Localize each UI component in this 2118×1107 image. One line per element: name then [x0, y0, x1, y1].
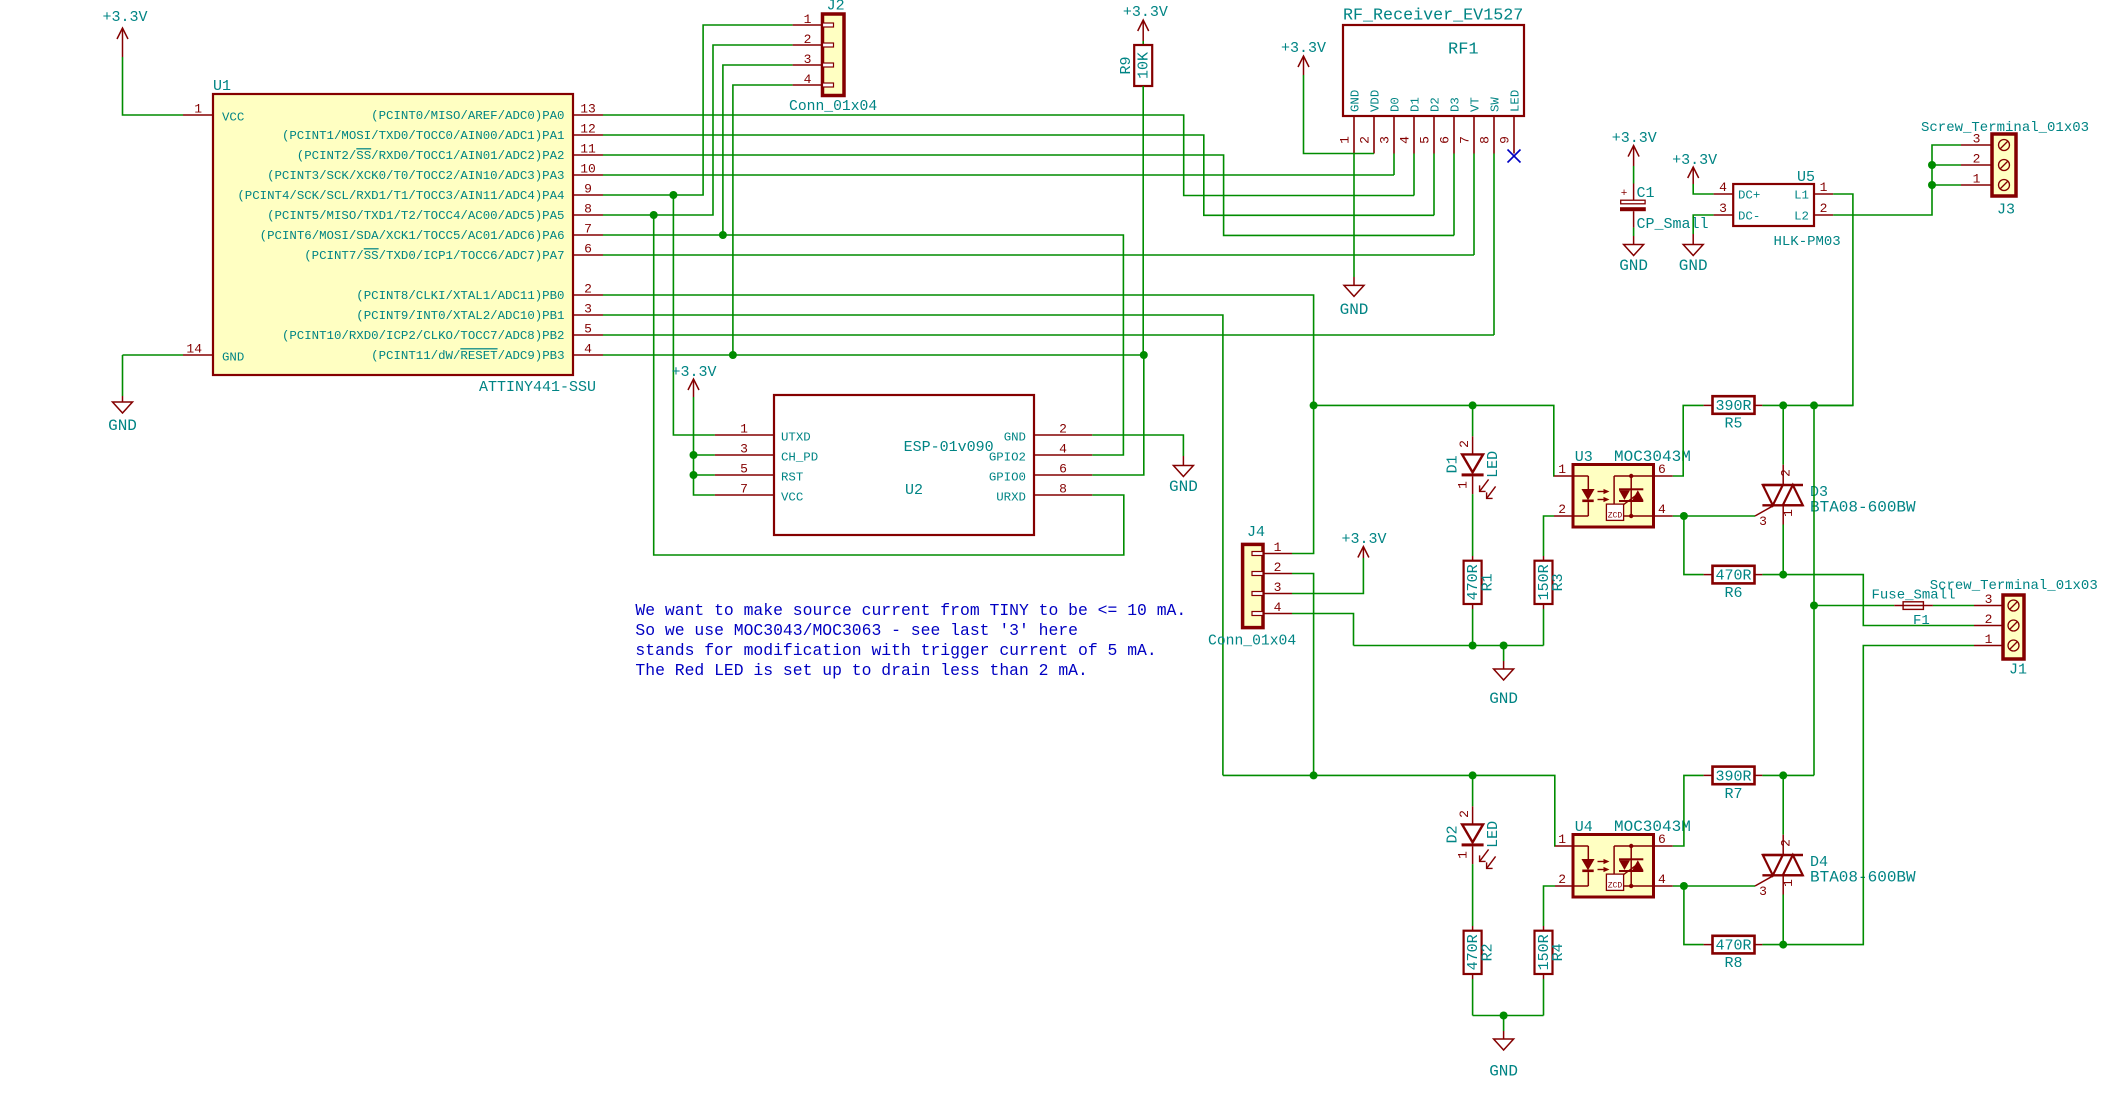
wire +3.3V to U2 VCC	[694, 397, 715, 495]
svg-text:ESP-01v090: ESP-01v090	[904, 439, 994, 456]
svg-text:+3.3V: +3.3V	[1612, 130, 1657, 147]
svg-text:14: 14	[186, 342, 202, 357]
connector J4 Conn_01x04	[1208, 524, 1296, 650]
svg-text:2: 2	[1985, 612, 1993, 627]
wire U2 RST spur	[694, 474, 715, 476]
svg-text:R5: R5	[1724, 416, 1742, 433]
svg-text:1: 1	[1985, 632, 1993, 647]
svg-text:J4: J4	[1247, 524, 1265, 541]
junction R7 / D4 anode	[1779, 771, 1787, 779]
svg-text:CP_Small: CP_Small	[1637, 216, 1709, 233]
svg-text:GPIO0: GPIO0	[989, 470, 1026, 484]
svg-text:L2: L2	[1794, 209, 1809, 223]
svg-text:4: 4	[1274, 600, 1282, 615]
junction L1 / fuse row	[1810, 602, 1818, 610]
no-connect RF1 LED	[1508, 150, 1521, 163]
wire R5 to L1 rail	[1762, 404, 1853, 406]
svg-text:ATTINY441-SSU: ATTINY441-SSU	[479, 379, 596, 396]
svg-text:1: 1	[1781, 509, 1796, 517]
svg-text:2: 2	[1358, 136, 1373, 144]
svg-text:13: 13	[580, 102, 596, 117]
power +3.3V R9	[1123, 4, 1168, 41]
junction PB3 / R9 / GPIO0	[1140, 351, 1148, 359]
svg-text:470R: 470R	[1715, 938, 1751, 955]
svg-text:7: 7	[1458, 136, 1473, 144]
svg-text:6: 6	[1658, 832, 1666, 847]
wire +3.3V to RF1 VDD	[1304, 75, 1375, 154]
svg-text:1: 1	[1338, 136, 1353, 144]
svg-text:(PCINT6/MOSI/SDA/XCK1/TOCC5/AC: (PCINT6/MOSI/SDA/XCK1/TOCC5/AC01/ADC6)PA…	[260, 229, 565, 243]
power +3.3V U2	[671, 364, 716, 397]
ground GND channel2	[1489, 1016, 1518, 1081]
ground GND channel1	[1489, 646, 1518, 709]
svg-text:1: 1	[1558, 832, 1566, 847]
svg-text:10K: 10K	[1136, 52, 1153, 79]
svg-text:VCC: VCC	[222, 111, 244, 125]
svg-text:1: 1	[1973, 172, 1981, 187]
wire channel1 GND rail	[1354, 645, 1544, 647]
svg-text:1: 1	[1456, 481, 1471, 489]
svg-text:2: 2	[1779, 839, 1794, 847]
wire U4 pin4 to R8	[1684, 886, 1704, 945]
svg-text:11: 11	[580, 142, 596, 157]
svg-text:D1: D1	[1445, 455, 1462, 473]
svg-text:D2: D2	[1428, 97, 1442, 112]
svg-text:VDD: VDD	[1368, 90, 1382, 112]
resistor R9 10K	[1118, 41, 1153, 355]
resistor R7 390R	[1704, 767, 1763, 803]
svg-text:5: 5	[740, 462, 748, 477]
wire RF1 SW drop	[1493, 154, 1495, 336]
svg-text:MOC3043M: MOC3043M	[1614, 818, 1691, 836]
junction J3 pin2	[1928, 161, 1936, 169]
junction GND rail / R1	[1469, 642, 1477, 650]
svg-text:4: 4	[1719, 180, 1727, 195]
svg-text:ZCD: ZCD	[1608, 882, 1623, 891]
svg-text:C1: C1	[1637, 185, 1655, 202]
power +3.3V J4	[1341, 531, 1386, 558]
svg-text:1: 1	[1558, 462, 1566, 477]
svg-text:2: 2	[1457, 810, 1472, 818]
svg-text:+3.3V: +3.3V	[1341, 531, 1386, 548]
svg-text:GND: GND	[1004, 430, 1026, 444]
svg-text:GPIO2: GPIO2	[989, 450, 1026, 464]
wire U2-side pin2 of U3 to R3	[1544, 516, 1555, 556]
svg-text:GND: GND	[1340, 301, 1369, 319]
svg-text:4: 4	[1059, 442, 1067, 457]
junction channel1 rail / D1	[1469, 401, 1477, 409]
svg-text:3: 3	[1378, 136, 1393, 144]
svg-text:9: 9	[1498, 136, 1513, 144]
power +3.3V RF1	[1281, 40, 1326, 75]
connector J2 Conn_01x04	[789, 0, 877, 115]
junction U4 pin4 node	[1680, 882, 1688, 890]
rf module RF1 RF_Receiver_EV1527	[1338, 7, 1525, 154]
svg-text:2: 2	[584, 282, 592, 297]
wire U5 L2 to J3	[1833, 145, 1961, 215]
svg-text:12: 12	[580, 122, 596, 137]
svg-text:GND: GND	[1679, 257, 1708, 275]
resistor R6 470R	[1704, 566, 1763, 602]
junction RST	[690, 471, 698, 479]
wire J3 pin2 spur	[1932, 164, 1961, 166]
svg-text:10: 10	[580, 162, 596, 177]
svg-text:3: 3	[1719, 201, 1727, 216]
svg-text:GND: GND	[1489, 690, 1518, 708]
wire PA3 to RF1 D0	[603, 174, 1394, 176]
svg-text:2: 2	[1558, 872, 1566, 887]
svg-text:2: 2	[1274, 560, 1282, 575]
svg-text:(PCINT7/SS/TXD0/ICP1/TOCC6/ADC: (PCINT7/SS/TXD0/ICP1/TOCC6/ADC7)PA7	[304, 249, 564, 263]
svg-text:9: 9	[584, 182, 592, 197]
svg-text:1: 1	[740, 422, 748, 437]
svg-text:2: 2	[1558, 502, 1566, 517]
svg-text:2: 2	[1779, 469, 1794, 477]
wire PA6 to J2 pin3	[723, 65, 793, 235]
svg-text:4: 4	[584, 342, 592, 357]
wire U2 CH_PD spur	[694, 454, 715, 456]
wire RF1 D0 drop	[1393, 154, 1395, 176]
svg-text:390R: 390R	[1715, 398, 1751, 415]
svg-text:R7: R7	[1724, 786, 1742, 803]
wire J4 pin3 to +3.3V	[1292, 558, 1363, 594]
svg-text:1: 1	[1820, 180, 1828, 195]
svg-text:(PCINT8/CLKI/XTAL1/ADC11)PB0: (PCINT8/CLKI/XTAL1/ADC11)PB0	[356, 289, 564, 303]
svg-text:RF_Receiver_EV1527: RF_Receiver_EV1527	[1343, 7, 1523, 26]
svg-text:+3.3V: +3.3V	[671, 364, 716, 381]
wire D2 to R2	[1472, 864, 1474, 926]
wire PA1 to RF1 D2	[603, 135, 1434, 215]
svg-text:+3.3V: +3.3V	[1672, 152, 1717, 169]
wire channel1 rail	[1314, 405, 1554, 476]
svg-text:(PCINT10/RXD0/ICP2/CLKO/TOCC7/: (PCINT10/RXD0/ICP2/CLKO/TOCC7/ADC8)PB2	[282, 329, 565, 343]
svg-text:DC+: DC+	[1738, 188, 1760, 202]
resistor R8 470R	[1704, 936, 1763, 972]
svg-text:RF1: RF1	[1448, 41, 1479, 60]
junction PA5 / URXD	[650, 211, 658, 219]
resistor R1 470R	[1464, 556, 1497, 646]
junction CH_PD	[690, 451, 698, 459]
note text block	[635, 601, 1186, 680]
svg-text:(PCINT1/MOSI/TXD0/TOCC0/AIN00/: (PCINT1/MOSI/TXD0/TOCC0/AIN00/ADC1)PA1	[282, 129, 565, 143]
svg-text:Conn_01x04: Conn_01x04	[789, 99, 877, 115]
wire RF1 D1 drop	[1413, 154, 1415, 196]
svg-text:UTXD: UTXD	[781, 430, 811, 444]
power +3.3V C1	[1612, 130, 1657, 166]
connector J3 Screw_Terminal_01x03	[1921, 120, 2089, 219]
led D2	[1445, 775, 1503, 868]
junction PA6 / J2 pin3	[719, 231, 727, 239]
junction PA4 / UTXD	[669, 191, 677, 199]
svg-text:L1: L1	[1794, 188, 1809, 202]
svg-text:RST: RST	[781, 470, 803, 484]
ground GND U1	[108, 355, 137, 435]
svg-text:+3.3V: +3.3V	[1281, 40, 1326, 57]
wire J4 pin4 to GND rail	[1292, 614, 1354, 646]
junction GND rail ch2	[1500, 1012, 1508, 1020]
svg-text:GND: GND	[1169, 478, 1198, 496]
svg-text:4: 4	[1658, 872, 1666, 887]
triac D3 BTA08-600BW	[1759, 405, 1916, 574]
wire +3.3V to U5 DC+	[1693, 184, 1713, 194]
svg-text:BTA08-600BW: BTA08-600BW	[1810, 499, 1916, 517]
svg-text:CH_PD: CH_PD	[781, 450, 818, 464]
svg-text:3: 3	[804, 52, 812, 67]
svg-text:(PCINT4/SCK/SCL/RXD1/T1/TOCC3/: (PCINT4/SCK/SCL/RXD1/T1/TOCC3/AIN11/ADC4…	[237, 189, 564, 203]
ground GND C1	[1619, 245, 1648, 276]
svg-text:1: 1	[1781, 879, 1796, 887]
ic U1 ATTINY441-SSU	[183, 78, 603, 396]
ground GND U2	[1169, 466, 1198, 497]
junction U3 pin4 node	[1680, 512, 1688, 520]
wire PB3 to R9 junction	[603, 354, 1144, 356]
wire PA2 to RF1 D3	[603, 155, 1454, 235]
wire U3 pin4 to gate D3	[1673, 505, 1774, 516]
svg-text:5: 5	[584, 322, 592, 337]
svg-text:+3.3V: +3.3V	[1123, 4, 1168, 21]
svg-text:(PCINT5/MISO/TXD1/T2/TOCC4/AC0: (PCINT5/MISO/TXD1/T2/TOCC4/AC00/ADC5)PA5	[267, 209, 564, 223]
svg-text:Conn_01x04: Conn_01x04	[1208, 634, 1296, 650]
junction R6 / D3 cathode	[1779, 571, 1787, 579]
svg-text:4: 4	[1398, 136, 1413, 144]
wire U5 L1 to triac rail	[1814, 194, 1853, 405]
svg-text:(PCINT9/INT0/XTAL2/ADC10)PB1: (PCINT9/INT0/XTAL2/ADC10)PB1	[356, 309, 564, 323]
ground GND RF1	[1340, 154, 1369, 320]
svg-text:GND: GND	[222, 351, 244, 365]
svg-text:J3: J3	[1997, 202, 2015, 219]
wire U1 GND pin	[123, 354, 184, 356]
svg-text:3: 3	[1759, 514, 1767, 529]
svg-text:6: 6	[584, 242, 592, 257]
wire RF1 D3 drop	[1453, 154, 1455, 236]
svg-text:J2: J2	[827, 0, 845, 15]
svg-text:6: 6	[1059, 462, 1067, 477]
svg-text:3: 3	[740, 442, 748, 457]
svg-text:R8: R8	[1724, 955, 1742, 972]
wire J2 pin4 drop	[733, 85, 793, 355]
resistor R3 150R	[1535, 556, 1568, 646]
wire R7 to L1 riser	[1762, 774, 1814, 776]
wire L1 riser	[1813, 405, 1815, 775]
svg-text:J1: J1	[2009, 662, 2027, 679]
resistor R4 150R	[1535, 926, 1568, 1016]
fuse F1 Fuse_Small	[1814, 588, 1974, 630]
svg-text:+3.3V: +3.3V	[102, 9, 147, 26]
svg-text:U3: U3	[1575, 449, 1593, 466]
power module U5 HLK-PM03	[1714, 169, 1841, 250]
svg-text:VCC: VCC	[781, 490, 803, 504]
svg-text:(PCINT2/SS/RXD0/TOCC1/AIN01/AD: (PCINT2/SS/RXD0/TOCC1/AIN01/ADC2)PA2	[297, 149, 565, 163]
svg-text:GND: GND	[108, 417, 137, 435]
svg-text:R2: R2	[1480, 943, 1497, 961]
optocoupler U4 MOC3043M	[1555, 818, 1691, 897]
svg-text:3: 3	[1759, 884, 1767, 899]
wire +3.3V to U1 VCC	[123, 57, 184, 115]
svg-text:URXD: URXD	[996, 490, 1026, 504]
svg-text:5: 5	[1418, 136, 1433, 144]
svg-text:2: 2	[1820, 201, 1828, 216]
wire D1 to R1	[1472, 494, 1474, 556]
svg-text:HLK-PM03: HLK-PM03	[1774, 234, 1841, 250]
svg-text:8: 8	[584, 202, 592, 217]
wire channel2 GND rail	[1473, 1015, 1544, 1017]
junction channel2 rail / D2	[1469, 771, 1477, 779]
power +3.3V U1	[102, 9, 147, 57]
svg-text:D0: D0	[1388, 97, 1402, 112]
capacitor C1 CP_Small	[1620, 166, 1709, 245]
svg-text:7: 7	[740, 482, 748, 497]
wire PA4 to U2 UTXD	[673, 195, 715, 435]
svg-text:1: 1	[194, 102, 202, 117]
svg-text:MOC3043M: MOC3043M	[1614, 448, 1691, 466]
junction J3 pin1	[1928, 181, 1936, 189]
svg-text:8: 8	[1059, 482, 1067, 497]
triac D4 BTA08-600BW	[1759, 775, 1916, 944]
resistor R2 470R	[1464, 926, 1497, 1016]
wire J3 pin1 spur	[1932, 184, 1961, 186]
wire PA5 to U2 URXD	[654, 215, 1124, 555]
svg-text:4: 4	[804, 72, 812, 87]
svg-text:Screw_Terminal_01x03: Screw_Terminal_01x03	[1930, 578, 2098, 594]
wire PA7 to RF1 VT	[603, 254, 1474, 256]
wire PA4 to J2 pin1	[603, 25, 793, 195]
svg-text:6: 6	[1438, 136, 1453, 144]
junction PB3 / J2 pin4	[729, 351, 737, 359]
junction R8 / D4 cathode	[1779, 941, 1787, 949]
wire U3 pin4 to R6	[1684, 516, 1704, 575]
wire PB0 to channel1 rail / J4 pin1	[603, 295, 1314, 554]
svg-text:U2: U2	[905, 482, 923, 499]
connector J1 Screw_Terminal_01x03	[1930, 578, 2098, 679]
junction channel2 rail / J4 pin2	[1310, 771, 1318, 779]
wire R8 to J1 pin1	[1762, 646, 1974, 945]
wire PA5 to J2 pin2	[603, 45, 793, 215]
svg-text:LED: LED	[1485, 821, 1502, 848]
svg-text:D1: D1	[1408, 97, 1422, 112]
svg-text:2: 2	[804, 32, 812, 47]
svg-text:D3: D3	[1448, 97, 1462, 112]
svg-text:U4: U4	[1575, 819, 1593, 836]
module U2 ESP-01v090	[715, 395, 1092, 535]
junction GND rail / GND tap	[1500, 642, 1508, 650]
svg-text:(PCINT11/dW/RESET/ADC9)PB3: (PCINT11/dW/RESET/ADC9)PB3	[371, 349, 564, 363]
svg-text:LED: LED	[1508, 90, 1522, 112]
svg-text:2: 2	[1059, 422, 1067, 437]
wire R9 to U2 GPIO0	[1092, 355, 1144, 475]
svg-text:4: 4	[1658, 502, 1666, 517]
wire U2 GND	[1092, 435, 1183, 466]
svg-text:DC-: DC-	[1738, 209, 1760, 223]
optocoupler U3 MOC3043M	[1554, 448, 1691, 527]
svg-text:F1: F1	[1913, 613, 1930, 629]
wire U4 pin2 to R4	[1544, 886, 1556, 926]
wire PB1 to channel2 rail	[603, 315, 1223, 775]
wire U4 pin6 to R7	[1673, 775, 1704, 846]
svg-text:R4: R4	[1550, 943, 1567, 961]
junction channel1 rail / PB0	[1310, 401, 1318, 409]
svg-text:U5: U5	[1797, 169, 1815, 186]
power +3.3V U5	[1672, 152, 1717, 184]
svg-text:6: 6	[1658, 462, 1666, 477]
wire J4 pin2 to channel2 rail	[1292, 574, 1314, 776]
led D1	[1445, 405, 1503, 498]
svg-text:R1: R1	[1480, 573, 1497, 591]
svg-text:+: +	[1621, 188, 1628, 200]
svg-text:3: 3	[1985, 592, 1993, 607]
svg-text:3: 3	[584, 302, 592, 317]
wire PB2 to RF1 SW	[603, 334, 1494, 336]
wire PA6 to U2 GPIO2	[603, 235, 1123, 455]
svg-text:D2: D2	[1445, 825, 1462, 843]
svg-text:1: 1	[1456, 851, 1471, 859]
svg-text:LED: LED	[1485, 451, 1502, 478]
resistor R5 390R	[1704, 396, 1763, 432]
svg-text:8: 8	[1478, 136, 1493, 144]
svg-text:ZCD: ZCD	[1608, 512, 1623, 521]
svg-text:VT: VT	[1468, 97, 1482, 112]
svg-text:7: 7	[584, 222, 592, 237]
svg-text:R9: R9	[1118, 56, 1135, 74]
wire RF1 VT drop	[1473, 154, 1475, 256]
svg-text:We want to make source current: We want to make source current from TINY…	[635, 601, 1186, 620]
svg-text:390R: 390R	[1715, 768, 1751, 785]
junction R5 / L1 riser	[1810, 401, 1818, 409]
svg-text:2: 2	[1457, 440, 1472, 448]
wire R6 to J1 pin2	[1762, 575, 1974, 626]
wire U4 pin4 to gate D4	[1673, 875, 1774, 886]
svg-text:(PCINT3/SCK/XCK0/T0/TOCC2/AIN1: (PCINT3/SCK/XCK0/T0/TOCC2/AIN10/ADC3)PA3	[267, 169, 564, 183]
svg-text:U1: U1	[213, 78, 231, 95]
svg-text:GND: GND	[1619, 257, 1648, 275]
svg-text:stands for modification with t: stands for modification with trigger cur…	[635, 641, 1156, 660]
wire PA0 to RF1 D1	[603, 115, 1414, 196]
svg-text:So we use MOC3043/MOC3063 - se: So we use MOC3043/MOC3063 - see last '3'…	[635, 621, 1078, 640]
svg-text:2: 2	[1973, 152, 1981, 167]
svg-text:GND: GND	[1348, 90, 1362, 112]
svg-text:470R: 470R	[1715, 568, 1751, 585]
svg-text:The Red LED is set up to drain: The Red LED is set up to drain less than…	[635, 661, 1087, 680]
wire U5 DC- to GND	[1693, 215, 1713, 245]
svg-text:1: 1	[804, 12, 812, 27]
svg-text:1: 1	[1274, 540, 1282, 555]
svg-text:3: 3	[1274, 580, 1282, 595]
wire RF1 D2 drop	[1433, 154, 1435, 216]
wire U3 pin6 to R5	[1673, 405, 1704, 476]
wire channel2 rail	[1223, 775, 1555, 846]
svg-text:Screw_Terminal_01x03: Screw_Terminal_01x03	[1921, 120, 2089, 136]
junction R5 / D3 anode	[1779, 401, 1787, 409]
svg-text:GND: GND	[1489, 1063, 1518, 1081]
svg-text:SW: SW	[1488, 97, 1502, 112]
svg-text:R6: R6	[1724, 585, 1742, 602]
svg-text:(PCINT0/MISO/AREF/ADC0)PA0: (PCINT0/MISO/AREF/ADC0)PA0	[371, 109, 564, 123]
ground GND U5	[1679, 245, 1708, 276]
svg-text:R3: R3	[1550, 573, 1567, 591]
